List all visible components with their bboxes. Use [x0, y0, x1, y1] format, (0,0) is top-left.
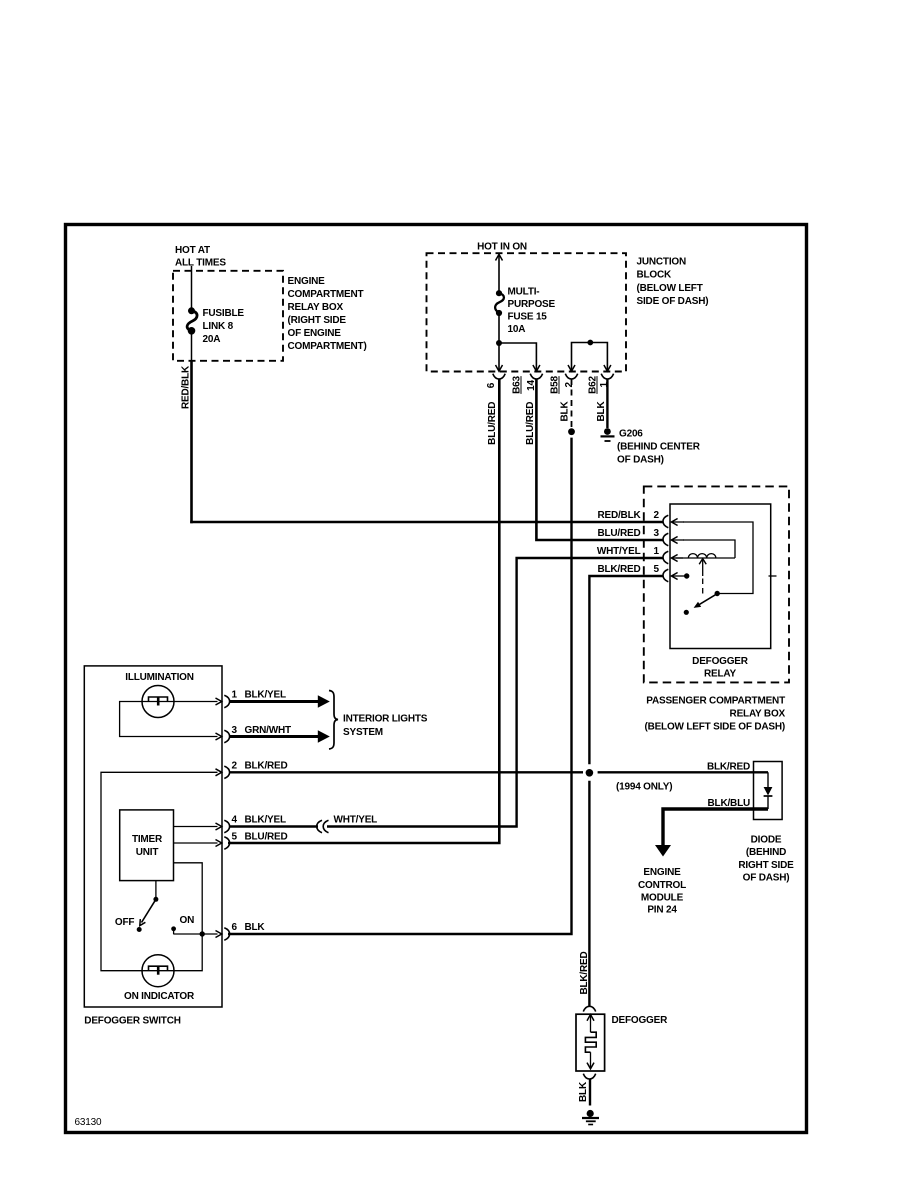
- wire WHT/YEL to relay pin 1: [327, 558, 663, 827]
- wire BLK dashed segment from jb pin2: [571, 379, 573, 427]
- junction block label: [637, 257, 709, 308]
- filled arrow interior lights 2: [318, 730, 330, 743]
- svg-text:SYSTEM: SYSTEM: [343, 727, 383, 738]
- ground at defogger: [582, 1110, 599, 1125]
- wire lamp left to pin 3: [120, 702, 218, 737]
- junction dot BLK/RED net: [586, 769, 594, 777]
- junction dot below fuse: [496, 340, 502, 346]
- wire BLU/RED jb pin6 down to switch pin5 row: [228, 379, 499, 843]
- switch lever with arrow: [140, 899, 156, 925]
- svg-text:BLK/RED: BLK/RED: [707, 762, 750, 773]
- svg-text:BLK: BLK: [560, 401, 571, 422]
- defogger switch box: [84, 666, 222, 1007]
- wire BLK solid down to switch pin6 row: [228, 438, 572, 934]
- svg-text:WHT/YEL: WHT/YEL: [597, 546, 641, 557]
- svg-text:OF ENGINE: OF ENGINE: [288, 328, 342, 339]
- svg-text:(RIGHT SIDE: (RIGHT SIDE: [288, 315, 347, 326]
- wire from HOT AT into fusible link: [191, 266, 193, 308]
- svg-text:1: 1: [232, 690, 238, 701]
- svg-text:2: 2: [564, 381, 575, 387]
- passenger compartment relay box (dashed): [644, 486, 789, 682]
- svg-text:OF DASH): OF DASH): [617, 455, 664, 466]
- connector cup switch pin 4: [224, 820, 229, 832]
- svg-text:(BELOW LEFT SIDE OF DASH): (BELOW LEFT SIDE OF DASH): [644, 722, 785, 733]
- diode D1 box: [754, 762, 783, 820]
- connector cup relay pin 1: [663, 551, 668, 563]
- arrow into relay pin 2: [671, 519, 684, 526]
- relay internal wire pin5 to contact: [679, 573, 689, 578]
- pin5 wire label 5 BLU/RED: [232, 832, 288, 843]
- svg-text:MODULE: MODULE: [641, 893, 684, 904]
- brace interior lights system: [329, 691, 338, 750]
- svg-text:HOT AT: HOT AT: [175, 245, 210, 256]
- svg-text:3: 3: [232, 725, 238, 736]
- arrow up defogger top: [587, 1015, 594, 1033]
- svg-text:RIGHT SIDE: RIGHT SIDE: [738, 860, 794, 871]
- svg-text:BLOCK: BLOCK: [637, 270, 673, 281]
- connector cup pin 1: [601, 374, 613, 379]
- wire timer right to on-indicator: [174, 863, 203, 971]
- relay internal wire pin3 to coil right: [683, 540, 735, 558]
- on indicator lamp: [142, 955, 174, 987]
- wire BLK defogger to ground: [589, 1079, 591, 1106]
- arrow into relay pin 1: [671, 555, 683, 562]
- svg-text:B62: B62: [588, 375, 599, 393]
- svg-text:COMPARTMENT): COMPARTMENT): [288, 341, 367, 352]
- svg-text:ENGINE: ENGINE: [288, 276, 326, 287]
- ground G206: [601, 428, 615, 441]
- diode internal wire top: [767, 772, 769, 787]
- svg-text:LINK 8: LINK 8: [203, 321, 234, 332]
- relay internal wire pin2 to switch pivot: [683, 522, 753, 594]
- arrow down junction pin 2: [568, 365, 575, 371]
- interior lights system label: [343, 714, 428, 739]
- arrow into relay pin 5: [671, 573, 679, 580]
- arrow down junction pin 6: [496, 365, 503, 371]
- svg-text:RED/BLK: RED/BLK: [597, 510, 641, 521]
- svg-text:OF DASH): OF DASH): [743, 873, 790, 884]
- svg-text:B63: B63: [512, 375, 523, 393]
- connector cup pin 14: [530, 374, 542, 379]
- svg-text:RELAY BOX: RELAY BOX: [288, 302, 344, 313]
- diode label: [738, 835, 794, 884]
- arrow switch pin 1: [216, 698, 222, 705]
- svg-text:ENGINE: ENGINE: [643, 867, 681, 878]
- arrow down junction pin 1: [604, 365, 611, 371]
- arrow switch pin 3: [216, 733, 222, 740]
- defogger relay label: [692, 656, 749, 680]
- illumination lamp: [142, 686, 174, 718]
- arrow down defogger bottom: [587, 1052, 594, 1069]
- relay armature link arrow and dashed line: [699, 559, 706, 596]
- svg-text:OFF: OFF: [115, 917, 134, 928]
- passenger compartment relay box label: [644, 696, 785, 733]
- connector cup relay pin 2: [663, 515, 668, 527]
- svg-text:BLK/RED: BLK/RED: [245, 761, 288, 772]
- pin6 wire label 6 BLK: [232, 922, 266, 933]
- svg-text:CONTROL: CONTROL: [638, 880, 686, 891]
- wire lamp to pin 1: [174, 701, 218, 703]
- relay case pin stub right: [769, 575, 777, 577]
- wire timer to pin 4: [174, 826, 218, 828]
- arrow switch pin 5: [216, 840, 222, 847]
- wire inner left vertical pin 2 to on-indicator: [101, 772, 218, 970]
- connector cup relay pin 5: [663, 569, 668, 581]
- svg-text:ON INDICATOR: ON INDICATOR: [124, 991, 195, 1002]
- svg-text:ALL TIMES: ALL TIMES: [175, 258, 226, 269]
- wire GRN/WHT pin3 to interior lights: [230, 735, 319, 738]
- svg-text:JUNCTION: JUNCTION: [637, 257, 687, 268]
- svg-text:BLK: BLK: [578, 1081, 589, 1102]
- wire RED/BLK vertical: [190, 361, 193, 523]
- svg-text:5: 5: [232, 832, 238, 843]
- svg-text:WHT/YEL: WHT/YEL: [334, 815, 378, 826]
- svg-text:SIDE OF DASH): SIDE OF DASH): [637, 296, 709, 307]
- wire BLK/RED relay pin5 down to defogger: [589, 576, 663, 1007]
- svg-text:20A: 20A: [203, 334, 221, 345]
- svg-text:1: 1: [654, 546, 660, 557]
- arrow switch pin 2: [216, 769, 222, 776]
- svg-text:TIMER: TIMER: [132, 834, 163, 845]
- svg-text:MULTI-: MULTI-: [508, 287, 540, 298]
- wire BLK jb pin1 to ground: [606, 379, 608, 428]
- svg-text:DEFOGGER SWITCH: DEFOGGER SWITCH: [84, 1016, 180, 1027]
- svg-text:2: 2: [654, 510, 660, 521]
- relay coil L1: [676, 554, 735, 558]
- svg-text:BLU/RED: BLU/RED: [597, 528, 640, 539]
- svg-text:6: 6: [486, 382, 497, 388]
- svg-text:3: 3: [654, 528, 660, 539]
- ON contact dot and stub: [171, 926, 176, 934]
- svg-text:DEFOGGER: DEFOGGER: [612, 1015, 669, 1026]
- svg-text:(BELOW LEFT: (BELOW LEFT: [637, 283, 703, 294]
- ground label G206: [617, 428, 701, 465]
- wire RED/BLK horizontal to relay pin 2: [190, 521, 663, 524]
- connector cup switch pin 6: [224, 928, 229, 940]
- connector cup pin 2: [565, 374, 577, 379]
- svg-text:RELAY BOX: RELAY BOX: [730, 709, 786, 720]
- svg-text:PURPOSE: PURPOSE: [508, 299, 556, 310]
- defogger grid element: [585, 1032, 596, 1052]
- svg-text:BLU/RED: BLU/RED: [487, 402, 498, 445]
- pin3 wire label 3 GRN/WHT: [232, 725, 291, 736]
- arrow into relay pin 3: [671, 537, 684, 544]
- arrow down junction pin 14: [533, 365, 540, 371]
- wire BLU/RED jb pin14 down to relay pin3 row: [536, 379, 663, 540]
- wire fuse to junction A: [498, 313, 500, 371]
- wire ON contact to pin 6: [173, 933, 217, 935]
- svg-text:PIN 24: PIN 24: [647, 905, 677, 916]
- connector cup switch pin 2: [224, 766, 229, 778]
- defogger relay U1 body: [670, 504, 771, 649]
- pin2 wire label 2 BLK/RED: [232, 761, 288, 772]
- svg-text:6: 6: [232, 922, 238, 933]
- wire timer bottom to switch common: [155, 881, 157, 900]
- wire BLK/RED pin2 to diode junction: [230, 771, 768, 773]
- filled arrow interior lights 1: [318, 695, 330, 708]
- arrow up at HOT IN ON: [496, 254, 503, 260]
- fuse value label: [508, 287, 556, 336]
- connector cup switch pin 5: [224, 837, 229, 849]
- junction dot on bar: [587, 340, 593, 346]
- svg-text:FUSIBLE: FUSIBLE: [203, 308, 245, 319]
- svg-text:DIODE: DIODE: [751, 835, 782, 846]
- connector cup switch pin 3: [224, 730, 229, 742]
- svg-text:HOT IN ON: HOT IN ON: [477, 242, 527, 253]
- svg-text:BLK/RED: BLK/RED: [579, 951, 590, 994]
- timer unit label: [132, 834, 163, 858]
- switch common dot: [153, 897, 158, 902]
- connector cup defogger bottom: [583, 1074, 595, 1079]
- svg-text:10A: 10A: [508, 324, 526, 335]
- diode internal wire bottom: [767, 796, 769, 809]
- pin4 wire label 4 BLK/YEL: [232, 815, 286, 826]
- defogger heater element box: [576, 1014, 605, 1071]
- wire branch to pin 14: [499, 343, 536, 371]
- svg-text:FUSE 15: FUSE 15: [508, 312, 548, 323]
- svg-text:DEFOGGER: DEFOGGER: [692, 656, 749, 667]
- svg-text:G206: G206: [619, 428, 643, 439]
- wire BLK/BLU diode to ECM: [663, 809, 768, 846]
- thick arrow to engine control module: [655, 845, 671, 857]
- wire from top arrow to fuse: [498, 254, 500, 291]
- relay switch lever with arrow: [684, 594, 718, 615]
- svg-text:5: 5: [654, 564, 660, 575]
- svg-text:BLK/YEL: BLK/YEL: [245, 690, 286, 701]
- svg-text:BLK/YEL: BLK/YEL: [245, 815, 286, 826]
- svg-text:ILLUMINATION: ILLUMINATION: [125, 672, 194, 683]
- border frame: [66, 225, 807, 1133]
- wire BLK/YEL pin4 to inline connector: [230, 825, 318, 827]
- diode symbol: [764, 787, 773, 796]
- wire BLK/YEL pin1 to interior lights: [230, 700, 319, 703]
- svg-text:ON: ON: [180, 915, 195, 926]
- connector cup relay pin 3: [663, 533, 668, 545]
- svg-text:(BEHIND: (BEHIND: [746, 847, 786, 858]
- svg-text:2: 2: [232, 761, 238, 772]
- engine control module label: [638, 867, 686, 916]
- svg-text:RELAY: RELAY: [704, 669, 737, 680]
- svg-text:BLK/RED: BLK/RED: [597, 564, 640, 575]
- connector cup switch pin 1: [224, 695, 229, 707]
- node HOT AT ALL TIMES: [175, 245, 226, 269]
- fusible link 8 20A: [187, 307, 197, 334]
- multi-purpose fuse 15 10A: [495, 290, 504, 316]
- svg-text:BLU/RED: BLU/RED: [525, 402, 536, 445]
- jb internal bar B58-B62: [572, 343, 608, 372]
- svg-text:63130: 63130: [75, 1117, 102, 1128]
- svg-text:RED/BLK: RED/BLK: [181, 365, 192, 409]
- junction dot pin6/indicator: [200, 931, 205, 936]
- svg-text:BLU/RED: BLU/RED: [245, 832, 288, 843]
- connector cup defogger top: [583, 1006, 595, 1011]
- svg-text:UNIT: UNIT: [136, 847, 159, 858]
- svg-text:BLK: BLK: [245, 922, 266, 933]
- svg-text:PASSENGER COMPARTMENT: PASSENGER COMPARTMENT: [646, 696, 785, 707]
- junction block (dashed): [427, 253, 627, 371]
- wire fusible link to box bottom: [191, 331, 193, 362]
- arrow switch pin 4: [216, 823, 222, 830]
- OFF contact dot: [137, 927, 142, 932]
- fusible link value label: [203, 308, 245, 345]
- relay switch pivot dot: [715, 591, 720, 596]
- svg-text:(1994 ONLY): (1994 ONLY): [616, 782, 672, 793]
- connector cup pin 6: [493, 374, 505, 379]
- svg-text:4: 4: [232, 815, 238, 826]
- svg-text:BLK: BLK: [596, 401, 607, 422]
- engine compartment relay box (dashed): [173, 271, 283, 361]
- svg-text:B58: B58: [550, 375, 561, 393]
- svg-text:(BEHIND CENTER: (BEHIND CENTER: [617, 442, 701, 453]
- timer unit: [120, 810, 174, 881]
- inline connector pair: [317, 820, 329, 832]
- svg-text:GRN/WHT: GRN/WHT: [245, 725, 291, 736]
- arrow switch pin 6: [216, 931, 222, 938]
- splice dot on BLK wire: [568, 428, 575, 435]
- pin1 wire label 1 BLK/YEL: [232, 690, 286, 701]
- svg-text:COMPARTMENT: COMPARTMENT: [288, 289, 364, 300]
- engine compartment relay box label: [288, 276, 367, 352]
- wire timer to pin 5: [174, 842, 218, 844]
- svg-text:INTERIOR LIGHTS: INTERIOR LIGHTS: [343, 714, 428, 725]
